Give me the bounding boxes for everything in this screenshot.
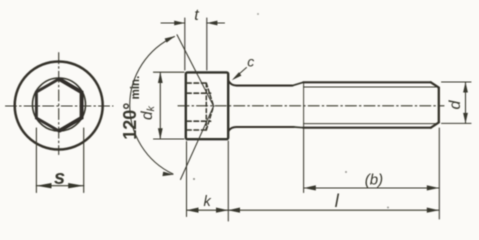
l dimension line xyxy=(228,209,439,211)
120 deg construction ray upper xyxy=(177,35,214,106)
t dimension line left tail xyxy=(161,22,185,24)
thread runout ramp top xyxy=(293,82,304,85)
scan speck 4 xyxy=(257,13,259,15)
t dimension line right tail xyxy=(207,22,225,24)
svg-text:t: t xyxy=(194,7,199,24)
svg-text:d: d xyxy=(447,100,464,110)
thread minor line bottom xyxy=(304,123,436,125)
end view: socket circle xyxy=(33,78,86,131)
t left arrow xyxy=(174,21,185,26)
d dimension line xyxy=(465,82,467,123)
l right arrow xyxy=(427,208,439,213)
s dimension: right extension line xyxy=(83,128,85,193)
end view: horizontal centerline xyxy=(6,105,114,107)
d dimension: bottom extension line xyxy=(442,122,472,124)
svg-text:dk: dk xyxy=(139,105,157,120)
120 deg dimension arc xyxy=(130,37,175,175)
dk extension line bottom xyxy=(154,138,185,140)
dk dimension line xyxy=(159,73,161,139)
scan speck 2 xyxy=(345,171,347,173)
k dimension line xyxy=(187,209,229,211)
s dimension: left arrow xyxy=(36,183,51,188)
k dimension: left extension line xyxy=(186,142,188,217)
dk top arrow xyxy=(158,72,163,83)
svg-text:s: s xyxy=(54,167,65,189)
l left arrow xyxy=(228,208,240,213)
t extension line right xyxy=(206,18,208,70)
head outline xyxy=(186,72,228,139)
d dimension: top extension line xyxy=(442,81,472,83)
socket hidden line bottom inner xyxy=(187,120,211,122)
svg-text:l: l xyxy=(335,191,340,211)
c leader line xyxy=(235,68,247,79)
thread start vertical line xyxy=(303,82,305,127)
svg-text:120° min.: 120° min. xyxy=(120,76,142,140)
end view: vertical centerline xyxy=(58,53,60,155)
thread major line top xyxy=(303,81,431,83)
c leader arrow xyxy=(232,72,242,80)
dk extension line top xyxy=(154,71,185,73)
svg-text:k: k xyxy=(204,194,212,210)
dk bottom arrow xyxy=(158,128,163,139)
socket hidden line top inner xyxy=(187,92,211,94)
end chamfer top xyxy=(431,82,439,87)
t right arrow xyxy=(207,21,218,26)
socket cone hidden lower xyxy=(206,106,213,130)
k left arrow xyxy=(187,208,199,213)
socket bottom hidden vertical xyxy=(205,83,207,130)
svg-text:(b): (b) xyxy=(365,171,383,188)
side view: screw axis centerline xyxy=(178,105,444,107)
120 deg arc upper arrow xyxy=(165,36,176,43)
socket hidden line top outer xyxy=(187,82,206,84)
shank top line with head fillet xyxy=(228,81,292,86)
end view: outer head circle xyxy=(15,62,103,150)
shank bottom line with head fillet xyxy=(228,127,294,131)
d top arrow xyxy=(463,82,468,93)
s dimension: right arrow xyxy=(68,183,84,188)
thread major line bottom xyxy=(303,127,431,129)
s dimension: left extension line xyxy=(35,128,37,193)
scan speck 3 xyxy=(387,207,389,209)
d bottom arrow xyxy=(463,113,468,124)
t extension line left xyxy=(184,18,186,70)
svg-text:c: c xyxy=(247,54,254,70)
b dimension: left extension line (below thread start) xyxy=(303,127,305,192)
end face xyxy=(438,88,440,123)
socket cone hidden upper xyxy=(206,83,213,106)
thread minor line top xyxy=(304,86,436,88)
socket hidden line bottom outer xyxy=(187,129,206,131)
thread runout ramp bottom xyxy=(294,126,303,129)
120 deg construction ray lower xyxy=(181,106,214,179)
b dimension line xyxy=(304,187,439,189)
end chamfer bottom xyxy=(431,122,439,127)
b left arrow xyxy=(304,185,316,190)
b dimension: right extension line (below screw end) xyxy=(438,128,440,219)
end view: hexagon socket xyxy=(36,79,81,131)
scan speck 1 xyxy=(193,178,195,180)
end view: hexagon heavy right flat overdraw xyxy=(60,79,82,130)
s dimension: line xyxy=(36,185,83,187)
120 deg arc lower arrow xyxy=(162,172,173,177)
k dimension: right extension line (head right edge extended) xyxy=(227,141,229,221)
b right arrow xyxy=(427,185,439,190)
k right arrow xyxy=(216,208,228,213)
